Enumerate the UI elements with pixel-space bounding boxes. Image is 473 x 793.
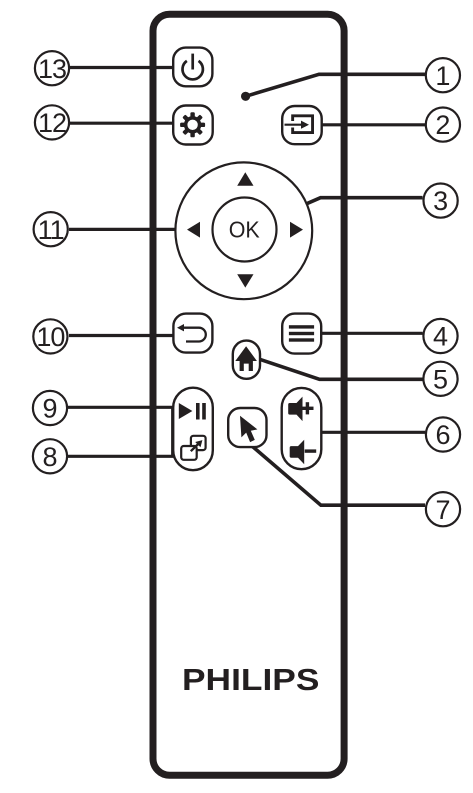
play/pause icon [179,403,206,420]
svg-text:1: 1 [435,61,450,91]
callout circle 9 [33,391,67,425]
navigation pad [175,162,312,299]
wire callout 12 [70,122,176,125]
svg-text:OK: OK [229,217,261,243]
cursor button [228,408,266,447]
svg-text:3: 3 [433,186,448,216]
source button [282,106,322,144]
down arrow [237,274,253,287]
wire callout 9 [68,406,178,409]
volume up icon [288,397,313,422]
callout circle 11 [34,212,68,246]
volume down icon [290,440,317,465]
callout circle 6 [426,417,460,451]
wire callout 10 [69,334,174,337]
cursor icon [240,416,257,442]
svg-text:11: 11 [38,215,64,245]
back icon [177,324,206,342]
menu button [282,314,321,354]
settings gear icon [180,112,205,137]
wire callout 5 [261,360,423,380]
right arrow [290,222,303,238]
wire callout 8 [68,455,178,458]
wire callout 11 [69,228,184,231]
callout circle 1 [426,58,460,92]
source icon [285,116,313,133]
svg-text:7: 7 [435,495,450,525]
svg-text:12: 12 [38,108,66,138]
svg-text:8: 8 [42,442,57,472]
home button [233,341,260,379]
svg-text:2: 2 [435,110,450,140]
callout circle 12 [35,105,69,139]
callout circle 2 [426,108,460,142]
svg-text:PHILIPS: PHILIPS [182,662,319,697]
play/pause + mirroring pill button [173,388,213,471]
wire callout 1 [246,74,425,96]
callout circle 3 [424,184,458,218]
volume pill button [282,388,322,469]
screen mirroring icon [181,436,205,460]
callout circle 10 [33,319,67,353]
wire callout 7 [253,447,426,506]
svg-text:13: 13 [38,54,66,84]
callout circle 7 [426,492,460,526]
power button [173,48,212,87]
OK button [213,198,277,262]
wire callout 6 [322,431,425,434]
callout circle 5 [423,362,457,396]
status LED [241,92,250,101]
home icon [235,346,257,371]
svg-text:5: 5 [433,364,448,394]
callout circle 13 [35,51,69,85]
menu icon [289,325,314,341]
wire callout 3 [268,198,423,221]
left arrow [187,222,200,238]
back button [173,314,212,353]
svg-text:4: 4 [433,322,448,352]
wire callout 4 [322,332,423,335]
svg-text:10: 10 [36,322,64,352]
svg-text:6: 6 [435,420,450,450]
remote body [153,14,344,775]
callout circle 4 [423,319,457,353]
settings button [173,106,213,145]
up arrow [237,172,253,186]
power icon [183,54,203,80]
callout circle 8 [33,439,67,473]
wire callout 2 [322,123,425,126]
bracket joining 9 and 8 [171,407,173,456]
svg-text:9: 9 [42,394,57,424]
wire callout 13 [70,66,176,69]
